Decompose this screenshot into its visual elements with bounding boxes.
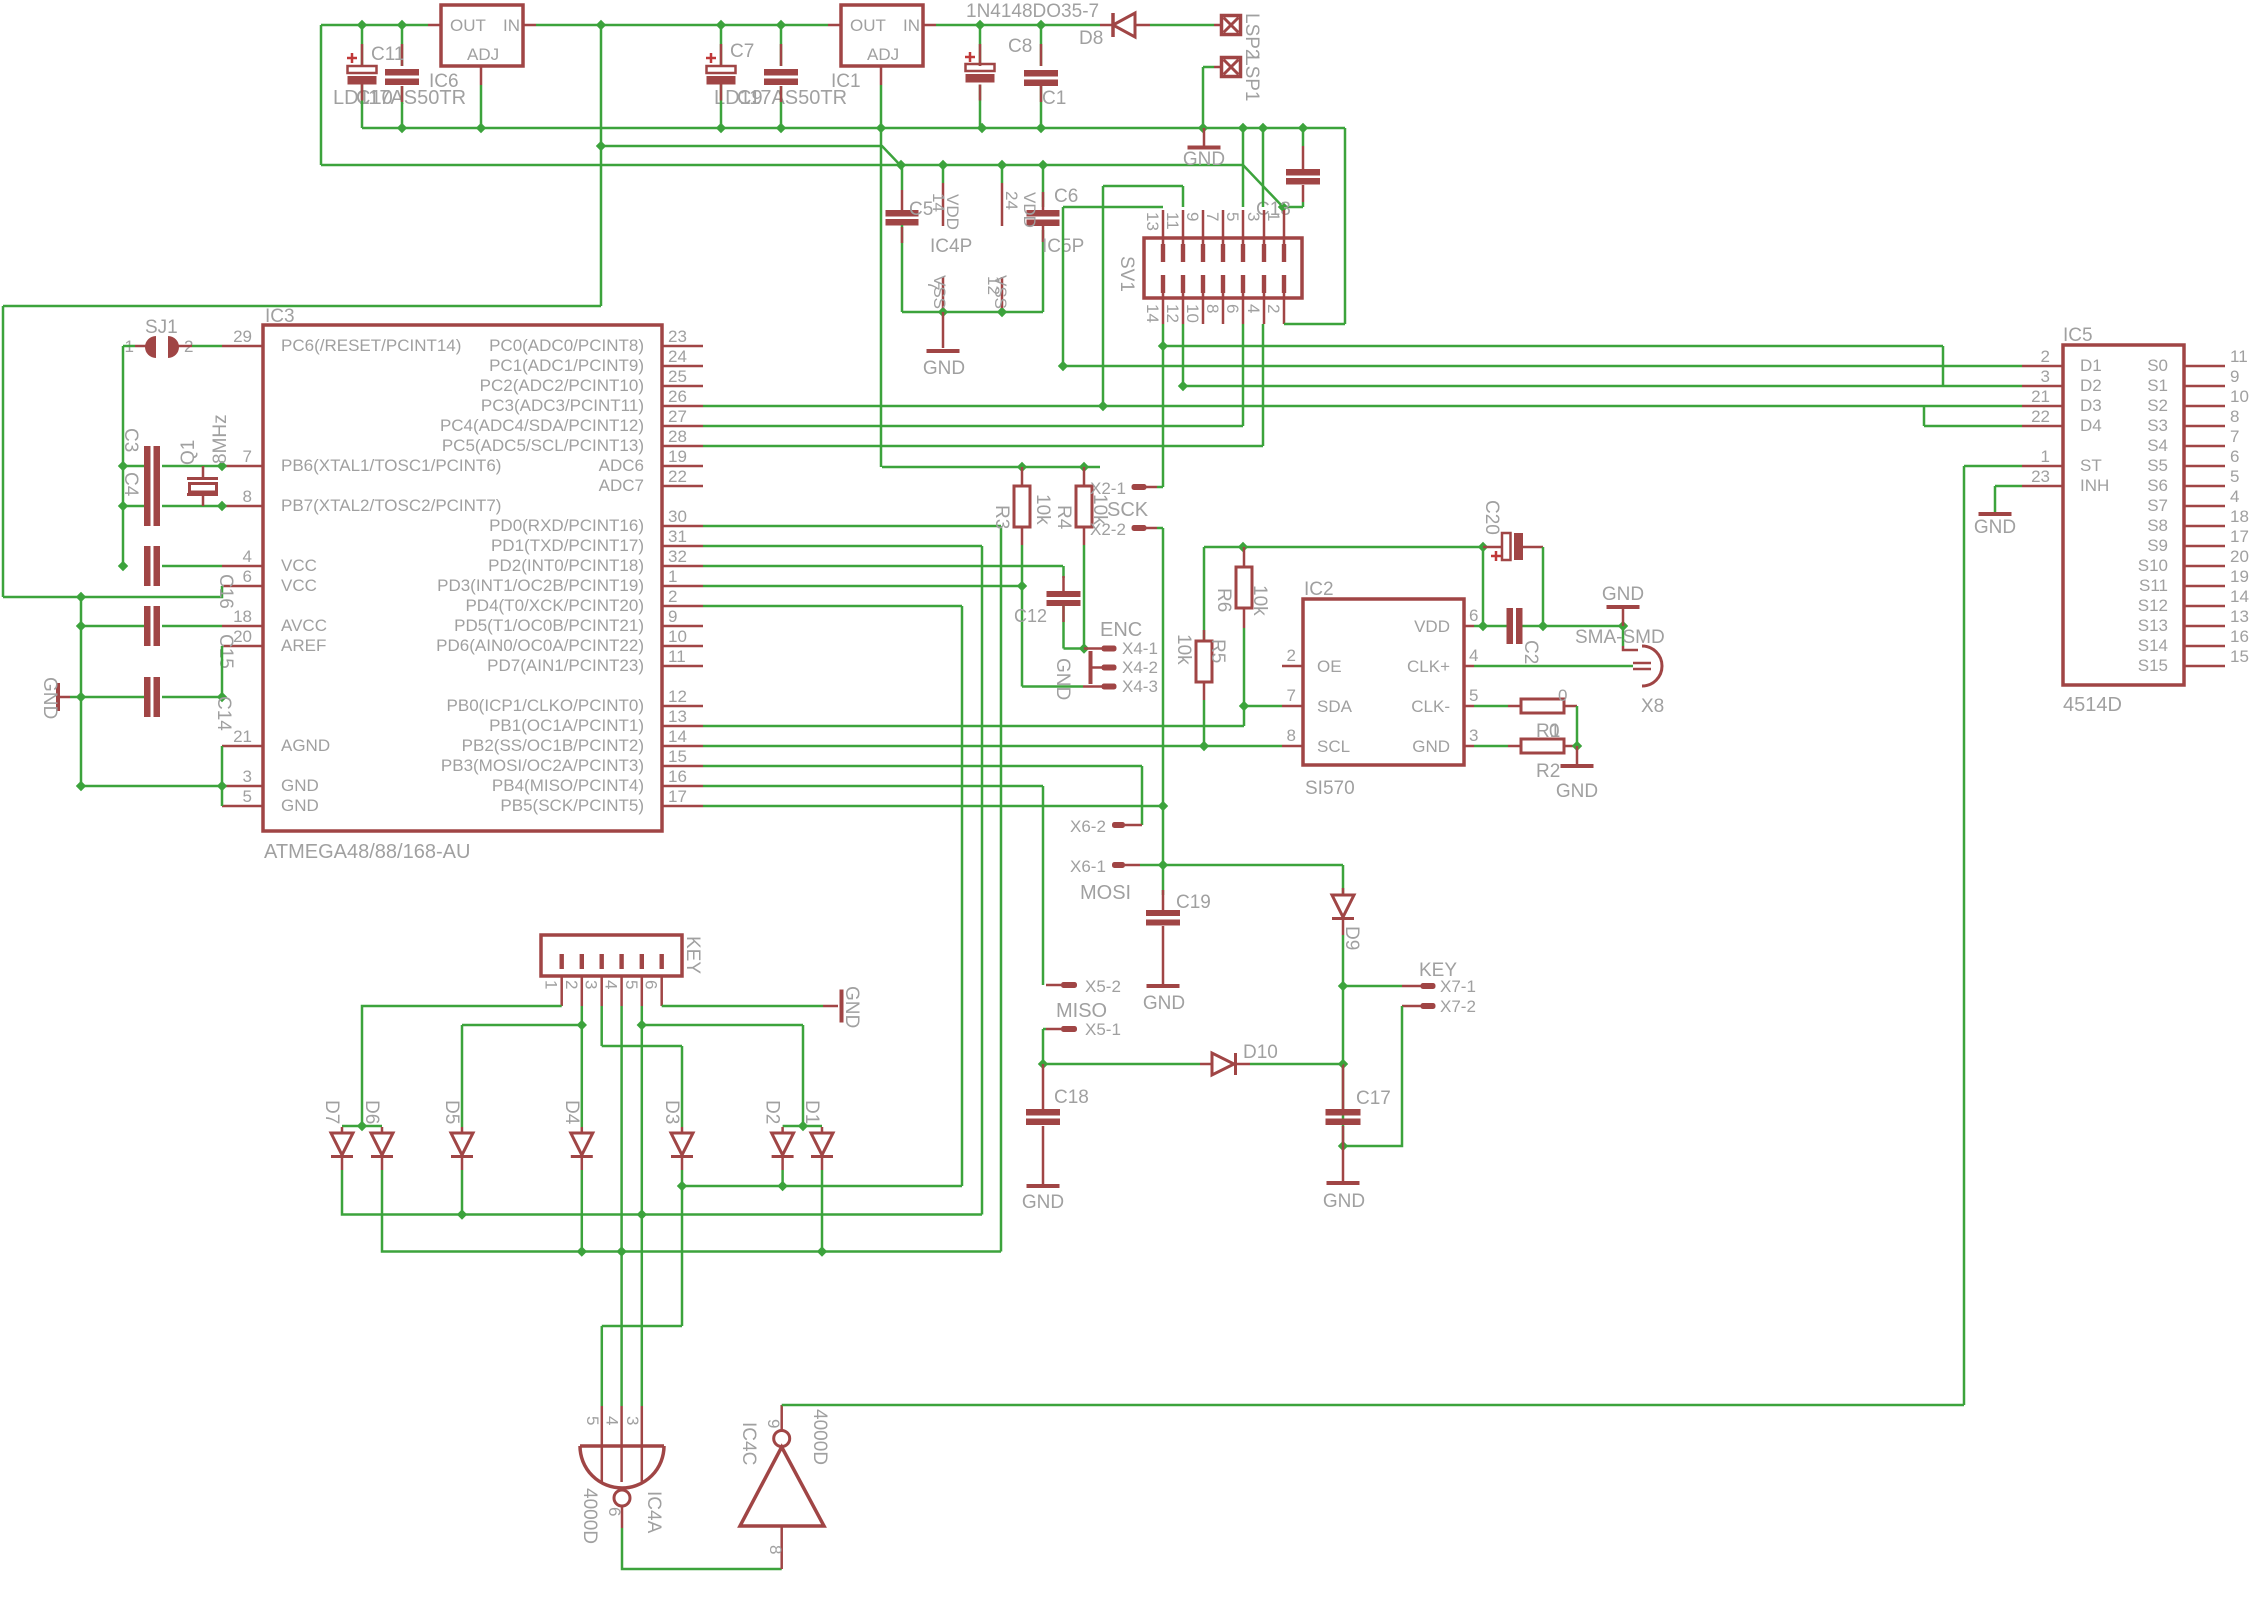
svg-text:13: 13 [668, 707, 687, 726]
svg-text:GND: GND [1183, 149, 1225, 170]
svg-text:AGND: AGND [281, 736, 330, 755]
svg-text:10k: 10k [1173, 634, 1194, 665]
svg-text:S2: S2 [2147, 396, 2168, 415]
svg-text:LD117AS50TR: LD117AS50TR [333, 87, 466, 109]
svg-text:15: 15 [2230, 647, 2249, 666]
svg-text:GND: GND [281, 776, 319, 795]
svg-text:S0: S0 [2147, 356, 2168, 375]
svg-text:R6: R6 [1213, 588, 1234, 612]
svg-text:IN: IN [903, 16, 920, 35]
svg-text:INH: INH [2080, 476, 2109, 495]
svg-text:C18: C18 [1054, 1087, 1089, 1108]
svg-text:27: 27 [668, 407, 687, 426]
svg-text:C6: C6 [1054, 186, 1078, 207]
svg-text:PB6(XTAL1/TOSC1/PCINT6): PB6(XTAL1/TOSC1/PCINT6) [281, 456, 501, 475]
svg-text:ADJ: ADJ [867, 45, 899, 64]
svg-text:C3: C3 [120, 428, 141, 452]
svg-text:D5: D5 [441, 1100, 462, 1124]
svg-text:PD3(INT1/OC2B/PCINT19): PD3(INT1/OC2B/PCINT19) [437, 576, 644, 595]
svg-text:15: 15 [668, 747, 687, 766]
svg-text:PD1(TXD/PCINT17): PD1(TXD/PCINT17) [491, 536, 644, 555]
svg-text:MISO: MISO [1056, 1000, 1107, 1022]
svg-text:C17: C17 [1356, 1088, 1391, 1109]
svg-text:26: 26 [668, 387, 687, 406]
svg-text:D9: D9 [1341, 926, 1362, 950]
svg-text:PC4(ADC4/SDA/PCINT12): PC4(ADC4/SDA/PCINT12) [440, 416, 644, 435]
svg-text:2: 2 [2041, 347, 2050, 366]
svg-text:GND: GND [39, 677, 60, 719]
svg-text:PD7(AIN1/PCINT23): PD7(AIN1/PCINT23) [487, 656, 644, 675]
svg-text:4: 4 [243, 547, 252, 566]
svg-text:17: 17 [668, 787, 687, 806]
svg-text:LSP1: LSP1 [1241, 55, 1262, 101]
svg-text:8MHz: 8MHz [210, 414, 231, 464]
svg-text:4: 4 [1244, 304, 1263, 313]
svg-text:OUT: OUT [850, 16, 886, 35]
svg-text:13: 13 [2230, 607, 2249, 626]
svg-text:3: 3 [1469, 726, 1478, 745]
svg-text:22: 22 [668, 467, 687, 486]
svg-text:D2: D2 [2080, 376, 2102, 395]
svg-text:PB3(MOSI/OC2A/PCINT3): PB3(MOSI/OC2A/PCINT3) [441, 756, 644, 775]
svg-text:0: 0 [1558, 686, 1567, 705]
svg-text:4: 4 [602, 980, 621, 989]
svg-text:VSS: VSS [930, 275, 949, 309]
svg-text:GND: GND [1022, 1192, 1064, 1213]
svg-text:9: 9 [668, 607, 677, 626]
svg-text:5: 5 [1223, 212, 1242, 221]
svg-text:10: 10 [1183, 304, 1202, 323]
svg-text:13: 13 [1143, 212, 1162, 231]
svg-text:PC5(ADC5/SCL/PCINT13): PC5(ADC5/SCL/PCINT13) [442, 436, 644, 455]
svg-text:D2: D2 [762, 1100, 783, 1124]
svg-text:PB2(SS/OC1B/PCINT2): PB2(SS/OC1B/PCINT2) [462, 736, 644, 755]
svg-text:D4: D4 [2080, 416, 2102, 435]
svg-text:PC0(ADC0/PCINT8): PC0(ADC0/PCINT8) [489, 336, 644, 355]
svg-text:6: 6 [2230, 447, 2239, 466]
svg-text:D4: D4 [561, 1100, 582, 1125]
svg-text:12: 12 [668, 687, 687, 706]
svg-text:5: 5 [243, 787, 252, 806]
svg-text:S14: S14 [2138, 636, 2168, 655]
svg-text:ATMEGA48/88/168-AU: ATMEGA48/88/168-AU [264, 841, 470, 863]
svg-text:0: 0 [1549, 721, 1560, 742]
svg-text:PB7(XTAL2/TOSC2/PCINT7): PB7(XTAL2/TOSC2/PCINT7) [281, 496, 501, 515]
svg-text:4: 4 [603, 1416, 622, 1425]
svg-text:1N4148DO35-7: 1N4148DO35-7 [966, 1, 1099, 22]
svg-text:6: 6 [1223, 304, 1242, 313]
svg-text:6: 6 [642, 980, 661, 989]
svg-text:C2: C2 [1520, 640, 1541, 664]
svg-text:VDD: VDD [1414, 617, 1450, 636]
svg-text:SV1: SV1 [1116, 256, 1137, 292]
svg-text:GND: GND [1143, 993, 1185, 1014]
svg-text:C4: C4 [120, 472, 141, 497]
svg-text:IC3: IC3 [265, 306, 295, 327]
svg-text:X5-1: X5-1 [1085, 1020, 1121, 1039]
svg-text:ADJ: ADJ [467, 45, 499, 64]
svg-text:S8: S8 [2147, 516, 2168, 535]
svg-text:S12: S12 [2138, 596, 2168, 615]
svg-text:PC1(ADC1/PCINT9): PC1(ADC1/PCINT9) [489, 356, 644, 375]
svg-text:19: 19 [668, 447, 687, 466]
svg-text:SMA-SMD: SMA-SMD [1575, 627, 1665, 648]
svg-text:6: 6 [243, 567, 252, 586]
svg-text:10k: 10k [1249, 585, 1270, 616]
svg-text:VSS: VSS [991, 275, 1010, 309]
svg-text:SJ1: SJ1 [145, 317, 178, 338]
svg-text:2: 2 [1264, 304, 1283, 313]
svg-text:PD2(INT0/PCINT18): PD2(INT0/PCINT18) [488, 556, 644, 575]
svg-text:7: 7 [1203, 212, 1222, 221]
svg-text:23: 23 [668, 327, 687, 346]
svg-text:17: 17 [2230, 527, 2249, 546]
svg-text:S7: S7 [2147, 496, 2168, 515]
svg-text:C19: C19 [1176, 892, 1211, 913]
svg-text:4514D: 4514D [2063, 694, 2122, 716]
svg-text:5: 5 [622, 980, 641, 989]
svg-text:D3: D3 [661, 1100, 682, 1124]
svg-text:14: 14 [1143, 304, 1162, 323]
svg-text:D6: D6 [361, 1100, 382, 1124]
svg-text:X2-1: X2-1 [1090, 479, 1126, 498]
svg-text:1: 1 [542, 980, 561, 989]
svg-text:PD6(AIN0/OC0A/PCINT22): PD6(AIN0/OC0A/PCINT22) [436, 636, 644, 655]
svg-text:C20: C20 [1481, 500, 1502, 535]
svg-text:PC6(/RESET/PCINT14): PC6(/RESET/PCINT14) [281, 336, 461, 355]
svg-text:IC4A: IC4A [643, 1491, 664, 1534]
svg-text:11: 11 [2230, 347, 2248, 366]
svg-text:C12: C12 [1014, 606, 1047, 626]
svg-text:7: 7 [1287, 686, 1296, 705]
svg-text:1: 1 [2041, 447, 2050, 466]
svg-text:LSP2: LSP2 [1241, 13, 1262, 59]
svg-text:S1: S1 [2147, 376, 2168, 395]
svg-text:SI570: SI570 [1305, 778, 1355, 799]
svg-text:GND: GND [1323, 1191, 1365, 1212]
svg-text:5: 5 [2230, 467, 2239, 486]
svg-text:1: 1 [1264, 212, 1283, 221]
svg-text:14: 14 [668, 727, 687, 746]
svg-text:GND: GND [1412, 737, 1450, 756]
svg-text:AREF: AREF [281, 636, 326, 655]
svg-text:VDD: VDD [943, 194, 962, 230]
svg-text:X5-2: X5-2 [1085, 977, 1121, 996]
svg-text:2: 2 [1287, 646, 1296, 665]
svg-text:X6-2: X6-2 [1070, 817, 1106, 836]
svg-text:GND: GND [281, 796, 319, 815]
svg-text:10: 10 [668, 627, 687, 646]
svg-text:PD4(T0/XCK/PCINT20): PD4(T0/XCK/PCINT20) [465, 596, 644, 615]
svg-text:6: 6 [1469, 606, 1478, 625]
svg-text:16: 16 [2230, 627, 2249, 646]
svg-text:28: 28 [668, 427, 687, 446]
svg-text:IC4C: IC4C [738, 1422, 759, 1465]
svg-text:PD0(RXD/PCINT16): PD0(RXD/PCINT16) [489, 516, 644, 535]
svg-text:18: 18 [2230, 507, 2249, 526]
svg-text:Q1: Q1 [178, 440, 199, 465]
svg-text:8: 8 [766, 1545, 785, 1554]
svg-text:3: 3 [582, 980, 601, 989]
svg-text:C7: C7 [730, 41, 754, 62]
svg-text:X4-3: X4-3 [1122, 677, 1158, 696]
svg-text:IC4P: IC4P [930, 236, 972, 257]
svg-text:C14: C14 [213, 696, 234, 731]
svg-text:7: 7 [2230, 427, 2239, 446]
svg-text:R3: R3 [991, 505, 1012, 529]
svg-text:IC2: IC2 [1304, 579, 1334, 600]
svg-text:2: 2 [562, 980, 581, 989]
svg-text:5: 5 [583, 1416, 602, 1425]
svg-text:VCC: VCC [281, 576, 317, 595]
svg-text:11: 11 [668, 647, 686, 666]
svg-text:3: 3 [623, 1416, 642, 1425]
svg-text:X8: X8 [1641, 696, 1664, 717]
svg-text:OUT: OUT [450, 16, 486, 35]
svg-text:22: 22 [2031, 407, 2050, 426]
svg-text:3: 3 [243, 767, 252, 786]
svg-text:IC5: IC5 [2063, 325, 2093, 346]
svg-text:21: 21 [233, 727, 252, 746]
svg-text:11: 11 [1163, 212, 1182, 230]
svg-text:4000D: 4000D [579, 1488, 600, 1544]
svg-text:S9: S9 [2147, 536, 2168, 555]
svg-text:C8: C8 [1008, 36, 1032, 57]
svg-text:GND: GND [1556, 781, 1598, 802]
svg-text:C11: C11 [371, 44, 404, 65]
svg-text:14: 14 [2230, 587, 2249, 606]
svg-text:S3: S3 [2147, 416, 2168, 435]
svg-text:R5: R5 [1207, 639, 1228, 663]
svg-text:D1: D1 [2080, 356, 2102, 375]
svg-text:AVCC: AVCC [281, 616, 327, 635]
svg-text:32: 32 [668, 547, 687, 566]
svg-text:SCL: SCL [1317, 737, 1350, 756]
svg-text:X7-1: X7-1 [1440, 977, 1476, 996]
svg-text:9: 9 [2230, 367, 2239, 386]
svg-text:MOSI: MOSI [1080, 882, 1131, 904]
svg-text:24: 24 [1002, 191, 1021, 210]
svg-text:12: 12 [1163, 304, 1182, 323]
svg-text:PB0(ICP1/CLKO/PCINT0): PB0(ICP1/CLKO/PCINT0) [447, 696, 644, 715]
svg-text:21: 21 [2031, 387, 2050, 406]
svg-text:1: 1 [668, 567, 677, 586]
svg-text:CLK+: CLK+ [1407, 657, 1450, 676]
svg-text:PC2(ADC2/PCINT10): PC2(ADC2/PCINT10) [480, 376, 644, 395]
svg-text:SDA: SDA [1317, 697, 1353, 716]
svg-text:X2-2: X2-2 [1090, 520, 1126, 539]
svg-text:GND: GND [1602, 584, 1644, 605]
svg-text:OE: OE [1317, 657, 1342, 676]
svg-text:PB1(OC1A/PCINT1): PB1(OC1A/PCINT1) [489, 716, 644, 735]
svg-text:8: 8 [1287, 726, 1296, 745]
svg-text:10k: 10k [1032, 494, 1053, 525]
svg-text:31: 31 [668, 527, 687, 546]
svg-text:2: 2 [668, 587, 677, 606]
svg-text:S4: S4 [2147, 436, 2168, 455]
svg-text:7: 7 [243, 447, 252, 466]
svg-text:GND: GND [841, 986, 862, 1028]
svg-text:GND: GND [923, 358, 965, 379]
svg-text:4: 4 [1469, 646, 1478, 665]
svg-text:CLK-: CLK- [1411, 697, 1450, 716]
svg-text:GND: GND [1052, 658, 1073, 700]
svg-text:PB5(SCK/PCINT5): PB5(SCK/PCINT5) [500, 796, 644, 815]
svg-text:D10: D10 [1243, 1042, 1278, 1063]
svg-text:24: 24 [668, 347, 687, 366]
svg-text:D3: D3 [2080, 396, 2102, 415]
svg-text:C1: C1 [1042, 88, 1066, 109]
svg-text:8: 8 [2230, 407, 2239, 426]
svg-text:S5: S5 [2147, 456, 2168, 475]
svg-text:PB4(MISO/PCINT4): PB4(MISO/PCINT4) [492, 776, 644, 795]
svg-text:19: 19 [2230, 567, 2249, 586]
svg-text:X4-2: X4-2 [1122, 658, 1158, 677]
svg-text:C16: C16 [215, 574, 236, 609]
svg-text:VDD: VDD [1020, 192, 1039, 228]
svg-text:D1: D1 [801, 1100, 822, 1124]
svg-text:18: 18 [233, 607, 252, 626]
svg-text:GND: GND [1974, 517, 2016, 538]
svg-text:30: 30 [668, 507, 687, 526]
svg-text:25: 25 [668, 367, 687, 386]
svg-text:10: 10 [2230, 387, 2249, 406]
svg-text:R2: R2 [1536, 761, 1560, 782]
svg-text:PC3(ADC3/PCINT11): PC3(ADC3/PCINT11) [481, 396, 644, 415]
svg-text:KEY: KEY [682, 936, 703, 974]
svg-text:S13: S13 [2138, 616, 2168, 635]
svg-text:4: 4 [2230, 487, 2239, 506]
svg-text:SCK: SCK [1107, 499, 1149, 521]
svg-text:20: 20 [2230, 547, 2249, 566]
svg-text:5: 5 [1469, 686, 1478, 705]
svg-text:S11: S11 [2139, 576, 2168, 595]
svg-text:VCC: VCC [281, 556, 317, 575]
svg-text:29: 29 [233, 327, 252, 346]
svg-text:X4-1: X4-1 [1122, 639, 1158, 658]
svg-text:D7: D7 [321, 1100, 342, 1124]
svg-text:23: 23 [2031, 467, 2050, 486]
svg-text:9: 9 [1183, 212, 1202, 221]
svg-text:IN: IN [503, 16, 520, 35]
svg-text:3: 3 [1244, 212, 1263, 221]
svg-text:S10: S10 [2138, 556, 2168, 575]
svg-text:16: 16 [668, 767, 687, 786]
svg-text:ADC6: ADC6 [599, 456, 644, 475]
svg-text:D8: D8 [1079, 28, 1103, 49]
svg-text:8: 8 [1203, 304, 1222, 313]
svg-text:4000D: 4000D [809, 1409, 830, 1465]
svg-text:8: 8 [243, 487, 252, 506]
svg-text:3: 3 [2041, 367, 2050, 386]
svg-text:X6-1: X6-1 [1070, 857, 1106, 876]
svg-text:X7-2: X7-2 [1440, 997, 1476, 1016]
svg-text:C9: C9 [737, 87, 763, 109]
svg-text:ADC7: ADC7 [599, 476, 644, 495]
svg-text:R4: R4 [1053, 505, 1074, 530]
svg-text:ENC: ENC [1100, 619, 1142, 641]
svg-text:ST: ST [2080, 456, 2102, 475]
svg-text:9: 9 [764, 1419, 783, 1428]
svg-text:C15: C15 [215, 634, 236, 669]
svg-text:S15: S15 [2138, 656, 2168, 675]
svg-text:PD5(T1/OC0B/PCINT21): PD5(T1/OC0B/PCINT21) [454, 616, 644, 635]
svg-text:6: 6 [605, 1507, 624, 1516]
svg-text:S6: S6 [2147, 476, 2168, 495]
